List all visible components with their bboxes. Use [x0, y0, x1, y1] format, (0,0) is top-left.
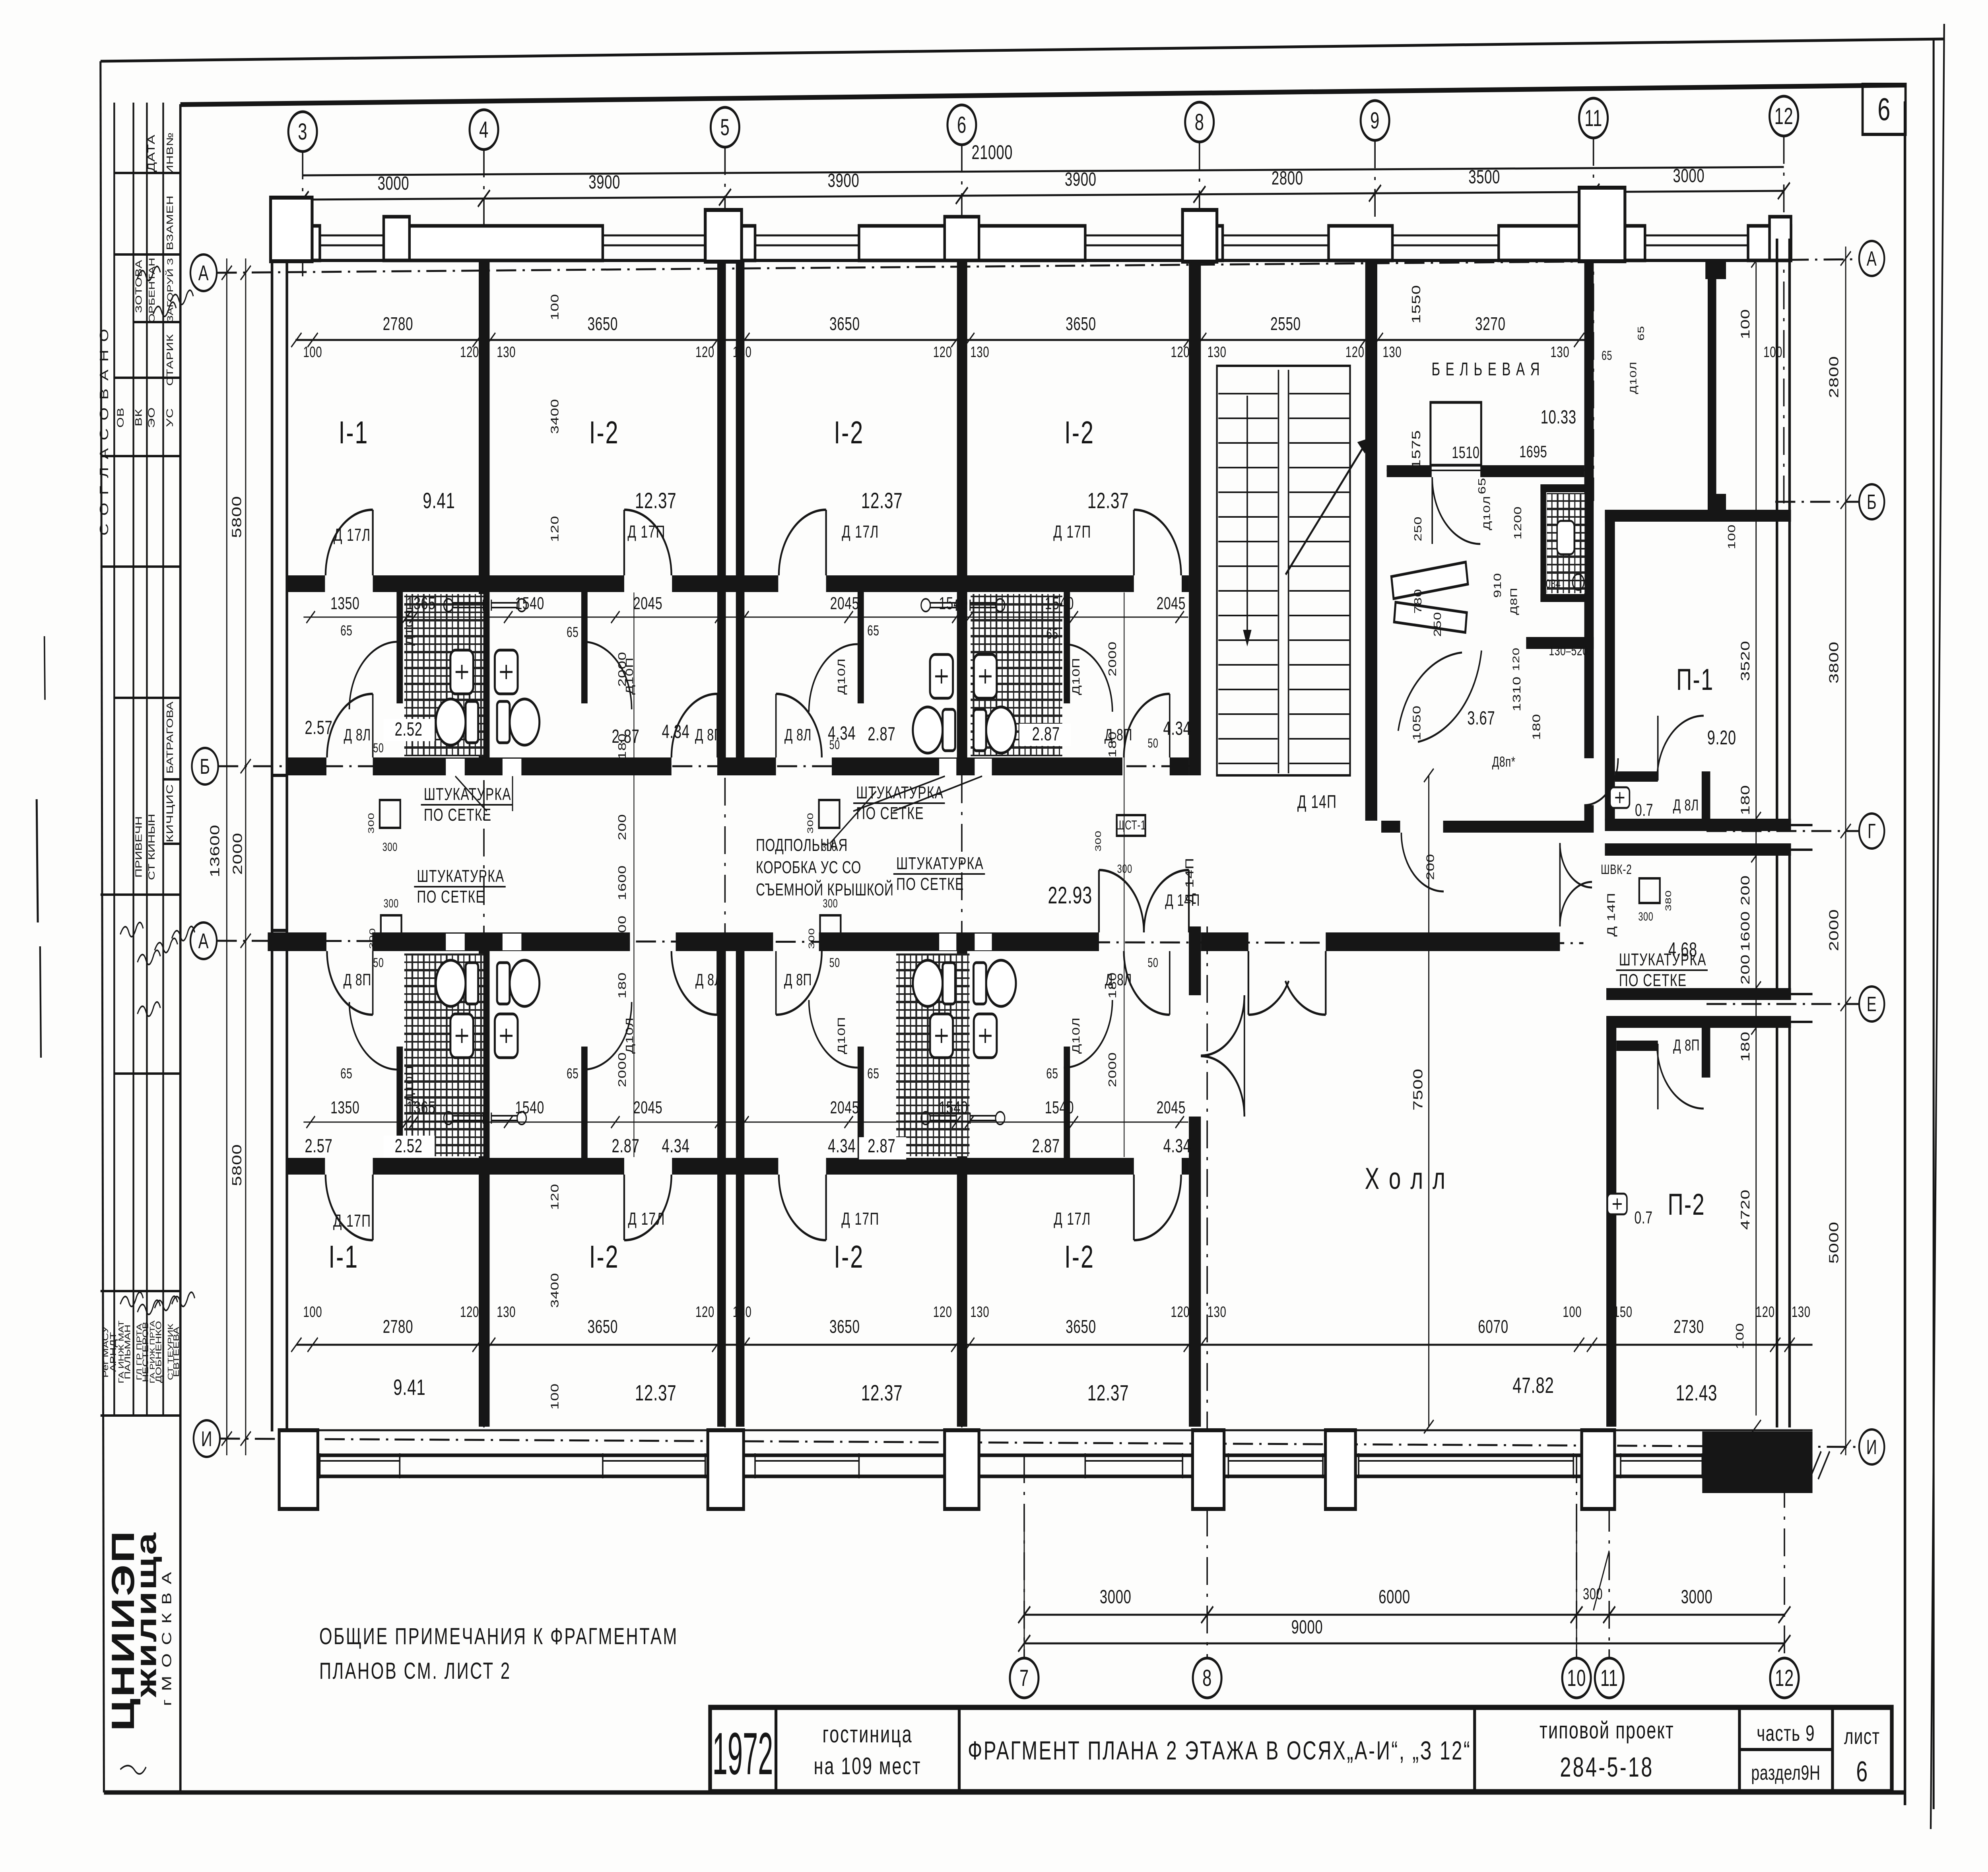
- svg-text:2045: 2045: [830, 1098, 859, 1117]
- svg-text:12.37: 12.37: [861, 489, 903, 513]
- svg-text:21000: 21000: [971, 142, 1013, 163]
- svg-text:100: 100: [303, 344, 322, 361]
- svg-text:100: 100: [303, 1304, 322, 1320]
- svg-text:1972: 1972: [712, 1721, 773, 1787]
- svg-text:Д10Л: Д10Л: [404, 609, 415, 646]
- svg-text:12.37: 12.37: [1087, 489, 1129, 513]
- svg-text:Д 17П: Д 17П: [627, 522, 665, 542]
- svg-text:3520: 3520: [1738, 641, 1753, 681]
- svg-text:2730: 2730: [1673, 1317, 1704, 1337]
- svg-text:Д10Л: Д10Л: [1628, 361, 1639, 394]
- svg-text:300: 300: [384, 896, 399, 910]
- svg-text:7: 7: [1019, 1665, 1029, 1691]
- svg-text:12.37: 12.37: [635, 489, 676, 513]
- svg-text:I-2: I-2: [834, 1239, 864, 1275]
- svg-text:ЕВТЕЕВА: ЕВТЕЕВА: [172, 1326, 181, 1377]
- svg-text:3000: 3000: [1100, 1586, 1132, 1607]
- svg-text:120: 120: [1511, 647, 1522, 671]
- svg-text:180: 180: [1531, 714, 1543, 740]
- svg-text:780: 780: [1412, 588, 1424, 614]
- svg-text:6: 6: [1877, 91, 1891, 127]
- svg-text:1695: 1695: [1519, 442, 1547, 461]
- svg-text:2.87: 2.87: [1032, 723, 1060, 744]
- svg-text:1575: 1575: [1409, 430, 1423, 468]
- svg-text:Д 17П: Д 17П: [841, 1209, 879, 1229]
- svg-text:П-1: П-1: [1676, 663, 1714, 697]
- svg-text:1540: 1540: [1045, 1098, 1074, 1117]
- svg-text:2.87: 2.87: [612, 725, 639, 747]
- svg-text:3650: 3650: [588, 314, 618, 334]
- svg-text:2.87: 2.87: [868, 1135, 895, 1156]
- svg-text:ВЗАМЕН: ВЗАМЕН: [165, 195, 175, 250]
- svg-text:на 109 мест: на 109 мест: [814, 1753, 922, 1780]
- svg-text:2045: 2045: [1157, 594, 1186, 613]
- svg-text:3900: 3900: [588, 171, 620, 192]
- svg-text:120: 120: [549, 1184, 561, 1210]
- svg-text:ПО СЕТКЕ: ПО СЕТКЕ: [896, 874, 964, 894]
- svg-text:Д8П: Д8П: [1508, 587, 1519, 615]
- svg-text:1540: 1540: [515, 594, 544, 613]
- svg-text:120: 120: [695, 1304, 714, 1320]
- svg-text:3270: 3270: [1475, 314, 1506, 334]
- svg-text:СТАРИК: СТАРИК: [165, 334, 175, 386]
- svg-text:ШТУКАТУРКА: ШТУКАТУРКА: [424, 785, 511, 804]
- svg-text:2.87: 2.87: [868, 723, 895, 744]
- svg-text:ПО СЕТКЕ: ПО СЕТКЕ: [417, 887, 485, 907]
- svg-text:А: А: [198, 929, 209, 953]
- svg-text:Д 17Л: Д 17Л: [1054, 1209, 1091, 1229]
- svg-text:Д 8Л: Д 8Л: [344, 725, 371, 744]
- svg-text:65: 65: [1602, 348, 1612, 363]
- svg-text:2.87: 2.87: [612, 1135, 639, 1156]
- svg-text:3.67: 3.67: [1467, 707, 1495, 728]
- svg-text:120: 120: [460, 1304, 479, 1320]
- svg-text:Д 17П: Д 17П: [333, 1211, 371, 1231]
- svg-text:Д10Л: Д10Л: [624, 1017, 635, 1054]
- svg-text:2550: 2550: [1270, 314, 1301, 334]
- svg-text:65: 65: [1476, 478, 1488, 494]
- svg-text:I-2: I-2: [834, 415, 864, 451]
- svg-text:Б: Б: [200, 754, 210, 779]
- svg-text:100: 100: [549, 1383, 561, 1410]
- svg-text:2.57: 2.57: [305, 1135, 332, 1156]
- svg-text:Д 8П: Д 8П: [695, 725, 723, 744]
- svg-text:БАТРАГОВА: БАТРАГОВА: [165, 701, 175, 774]
- svg-text:65: 65: [340, 1066, 352, 1082]
- svg-text:ПО СЕТКЕ: ПО СЕТКЕ: [1619, 971, 1687, 990]
- svg-text:I-2: I-2: [589, 1239, 619, 1275]
- svg-text:ПРИВЕЧН: ПРИВЕЧН: [134, 816, 144, 878]
- svg-text:300: 300: [366, 812, 376, 833]
- svg-text:Д 8Л: Д 8Л: [784, 725, 812, 744]
- svg-text:300: 300: [805, 812, 815, 833]
- svg-text:КОРОБКА УС СО: КОРОБКА УС СО: [756, 858, 861, 877]
- svg-text:И: И: [201, 1427, 213, 1451]
- svg-text:180: 180: [616, 972, 629, 998]
- svg-text:6: 6: [957, 112, 967, 138]
- svg-text:3650: 3650: [829, 314, 860, 334]
- svg-text:Б Е Л Ь Е В А Я: Б Е Л Ь Е В А Я: [1431, 359, 1540, 379]
- svg-text:Д 14П: Д 14П: [1183, 858, 1196, 904]
- svg-text:3400: 3400: [549, 1273, 561, 1308]
- svg-text:0.7: 0.7: [1635, 800, 1653, 820]
- svg-text:4.34: 4.34: [1163, 1135, 1191, 1156]
- svg-text:9: 9: [1370, 107, 1380, 133]
- svg-text:3500: 3500: [1468, 166, 1500, 187]
- svg-text:0.7: 0.7: [1635, 1208, 1653, 1227]
- svg-text:УС: УС: [164, 408, 175, 427]
- svg-text:Д8п*: Д8п*: [1492, 754, 1516, 770]
- svg-text:4.34: 4.34: [1163, 717, 1191, 739]
- svg-text:250: 250: [1412, 516, 1424, 541]
- svg-text:ВК: ВК: [133, 409, 144, 426]
- svg-text:1200: 1200: [1512, 506, 1524, 540]
- svg-text:ШТУКАТУРКА: ШТУКАТУРКА: [417, 866, 505, 886]
- svg-text:Д 14П: Д 14П: [1606, 893, 1618, 937]
- svg-text:50: 50: [1148, 736, 1159, 750]
- svg-text:ОБЩИЕ ПРИМЕЧАНИЯ К ФРАГМЕНТАМ: ОБЩИЕ ПРИМЕЧАНИЯ К ФРАГМЕНТАМ: [319, 1623, 678, 1649]
- svg-text:1540: 1540: [939, 594, 968, 613]
- svg-text:300: 300: [806, 928, 816, 949]
- svg-text:Д 14П: Д 14П: [1297, 792, 1337, 812]
- svg-text:50: 50: [1148, 955, 1159, 970]
- svg-text:130: 130: [1208, 1304, 1227, 1320]
- svg-text:65: 65: [567, 624, 579, 640]
- svg-text:65: 65: [567, 1066, 579, 1082]
- svg-text:120: 120: [549, 516, 561, 542]
- svg-text:6070: 6070: [1478, 1317, 1508, 1337]
- svg-text:3650: 3650: [588, 1317, 618, 1337]
- svg-text:часть 9: часть 9: [1757, 1721, 1815, 1746]
- svg-text:ПЛАНОВ СМ. ЛИСТ 2: ПЛАНОВ СМ. ЛИСТ 2: [319, 1658, 511, 1684]
- svg-text:Д 8П: Д 8П: [344, 970, 371, 989]
- svg-text:ПО СЕТКЕ: ПО СЕТКЕ: [424, 805, 492, 825]
- svg-text:1510: 1510: [1452, 443, 1479, 462]
- svg-text:300: 300: [1117, 862, 1132, 875]
- svg-text:12.43: 12.43: [1676, 1381, 1717, 1406]
- svg-text:084: 084: [1546, 577, 1561, 590]
- svg-text:ОВ: ОВ: [115, 407, 126, 427]
- svg-text:3: 3: [298, 118, 307, 144]
- svg-text:4720: 4720: [1738, 1189, 1753, 1230]
- svg-text:Д 8П: Д 8П: [784, 970, 812, 989]
- svg-text:4.34: 4.34: [662, 720, 689, 742]
- svg-text:3650: 3650: [1066, 1317, 1096, 1337]
- svg-text:120: 120: [460, 344, 479, 361]
- svg-text:100: 100: [1734, 1323, 1746, 1349]
- svg-text:3900: 3900: [1065, 168, 1097, 190]
- svg-text:ЩСТ-1: ЩСТ-1: [1116, 818, 1146, 832]
- svg-text:12.37: 12.37: [861, 1381, 903, 1406]
- svg-text:3400: 3400: [549, 399, 561, 434]
- svg-text:А: А: [198, 261, 209, 285]
- svg-text:ФРАГМЕНТ ПЛАНА 2 ЭТАЖА В ОСЯХ: ФРАГМЕНТ ПЛАНА 2 ЭТАЖА В ОСЯХ„А-И“, „З 1…: [968, 1736, 1471, 1765]
- svg-text:2.52: 2.52: [395, 1135, 423, 1156]
- svg-text:120: 120: [695, 344, 714, 361]
- svg-text:АРНДТ: АРНДТ: [108, 1332, 118, 1372]
- svg-text:65: 65: [1046, 626, 1058, 642]
- svg-text:Д 17Л: Д 17Л: [842, 522, 879, 542]
- svg-text:300: 300: [1638, 909, 1653, 923]
- svg-text:2.87: 2.87: [1032, 1135, 1060, 1156]
- svg-text:2.52: 2.52: [395, 718, 423, 740]
- svg-text:250: 250: [1432, 612, 1443, 637]
- svg-text:4.34: 4.34: [828, 1135, 856, 1156]
- svg-text:Б: Б: [1867, 490, 1877, 514]
- svg-text:130: 130: [1550, 344, 1569, 361]
- svg-text:65: 65: [1636, 326, 1646, 341]
- svg-text:180: 180: [1738, 785, 1753, 815]
- svg-text:А: А: [1867, 247, 1877, 270]
- svg-text:1540: 1540: [515, 1098, 544, 1117]
- svg-text:ПО СЕТКЕ: ПО СЕТКЕ: [856, 804, 924, 823]
- svg-text:9000: 9000: [1291, 1616, 1323, 1637]
- svg-text:3000: 3000: [1673, 165, 1705, 186]
- svg-text:100: 100: [1763, 344, 1782, 361]
- svg-text:300: 300: [367, 928, 377, 949]
- svg-text:Д10П: Д10П: [624, 657, 635, 695]
- svg-text:I-1: I-1: [338, 415, 369, 451]
- svg-text:лист: лист: [1844, 1724, 1880, 1749]
- svg-text:10.33: 10.33: [1541, 406, 1576, 427]
- svg-text:130⎯520: 130⎯520: [1549, 643, 1588, 658]
- svg-text:I-2: I-2: [589, 415, 619, 451]
- svg-text:2000: 2000: [1107, 1052, 1119, 1087]
- svg-text:50: 50: [829, 955, 840, 970]
- svg-text:300: 300: [823, 896, 838, 910]
- svg-text:5: 5: [720, 114, 730, 140]
- svg-text:300: 300: [821, 840, 837, 853]
- svg-text:200: 200: [1738, 954, 1753, 985]
- svg-text:2780: 2780: [383, 314, 414, 334]
- svg-text:2800: 2800: [1272, 167, 1303, 188]
- svg-text:2045: 2045: [830, 594, 859, 613]
- svg-text:I-1: I-1: [328, 1239, 359, 1275]
- svg-text:5000: 5000: [1827, 1221, 1841, 1264]
- svg-text:120: 120: [1756, 1304, 1775, 1320]
- svg-text:130: 130: [1208, 344, 1227, 361]
- svg-text:Д10П: Д10П: [1070, 658, 1082, 695]
- svg-text:120: 120: [933, 344, 952, 361]
- svg-text:130: 130: [1792, 1304, 1811, 1320]
- svg-text:11: 11: [1584, 105, 1602, 131]
- svg-text:6: 6: [1856, 1756, 1868, 1788]
- svg-text:Е: Е: [1867, 992, 1877, 1016]
- svg-text:12.37: 12.37: [635, 1381, 676, 1406]
- svg-text:50: 50: [373, 741, 384, 755]
- svg-text:Д10П: Д10П: [404, 1065, 415, 1103]
- svg-text:120: 120: [933, 1304, 952, 1320]
- svg-text:1365: 1365: [406, 594, 435, 613]
- svg-text:910: 910: [1492, 573, 1503, 598]
- svg-text:Д10Л: Д10Л: [1481, 495, 1492, 530]
- svg-text:ШВК-2: ШВК-2: [1601, 862, 1632, 877]
- svg-text:9.41: 9.41: [393, 1375, 425, 1400]
- svg-text:100: 100: [549, 294, 561, 320]
- svg-text:2045: 2045: [633, 594, 662, 613]
- svg-text:Д 8П: Д 8П: [1673, 1036, 1700, 1054]
- svg-text:1600: 1600: [1738, 911, 1753, 952]
- svg-text:65: 65: [1046, 1066, 1058, 1082]
- svg-text:7500: 7500: [1411, 1068, 1425, 1111]
- svg-text:ЗОТОВА: ЗОТОВА: [134, 260, 144, 313]
- svg-text:4: 4: [479, 117, 489, 142]
- svg-text:I-2: I-2: [1064, 1239, 1095, 1275]
- svg-text:22.93: 22.93: [1048, 882, 1092, 909]
- svg-text:2000: 2000: [231, 833, 245, 875]
- svg-text:180: 180: [1738, 1031, 1753, 1062]
- svg-text:ДОБНЕНКО: ДОБНЕНКО: [154, 1321, 163, 1383]
- svg-text:12.37: 12.37: [1087, 1381, 1129, 1406]
- svg-text:КИЧЦИС: КИЧЦИС: [164, 784, 175, 843]
- svg-text:200: 200: [616, 814, 629, 840]
- svg-text:200: 200: [1738, 875, 1753, 905]
- svg-text:Д 8Л: Д 8Л: [695, 970, 722, 989]
- svg-text:1540: 1540: [1045, 594, 1074, 613]
- svg-text:200: 200: [1425, 854, 1437, 880]
- svg-text:1350: 1350: [330, 1098, 359, 1117]
- svg-text:Д 8П: Д 8П: [1105, 725, 1132, 744]
- svg-text:ШТУКАТУРКА: ШТУКАТУРКА: [896, 854, 984, 873]
- svg-text:г М О С К В А: г М О С К В А: [160, 1571, 174, 1706]
- svg-text:1350: 1350: [330, 594, 359, 613]
- svg-text:5800: 5800: [229, 496, 244, 538]
- svg-text:Д 8Л: Д 8Л: [1673, 796, 1699, 814]
- svg-text:НЕСТЕРОВ: НЕСТЕРОВ: [141, 1322, 150, 1382]
- svg-text:ШТУКАТУРКА: ШТУКАТУРКА: [1619, 950, 1706, 969]
- svg-text:13600: 13600: [208, 825, 222, 878]
- svg-text:типовой проект: типовой проект: [1540, 1717, 1674, 1744]
- svg-text:С О Г Л А С О В А Н О: С О Г Л А С О В А Н О: [97, 327, 111, 536]
- svg-text:Д 8Л: Д 8Л: [1105, 970, 1132, 989]
- svg-text:ЭО: ЭО: [146, 407, 157, 428]
- svg-text:Д10Л: Д10Л: [836, 658, 847, 695]
- svg-text:Д10Л: Д10Л: [1070, 1017, 1082, 1054]
- svg-text:380: 380: [1663, 890, 1673, 911]
- svg-text:65: 65: [867, 1066, 879, 1082]
- svg-text:2.57: 2.57: [305, 717, 332, 738]
- svg-text:2045: 2045: [1157, 1098, 1186, 1117]
- svg-text:2000: 2000: [1827, 909, 1841, 951]
- svg-text:50: 50: [373, 955, 384, 970]
- svg-text:130: 130: [497, 1304, 516, 1320]
- svg-text:жилища: жилища: [130, 1532, 162, 1698]
- svg-text:3900: 3900: [828, 169, 860, 191]
- svg-text:6000: 6000: [1378, 1586, 1410, 1607]
- svg-text:ПАЛЬМАН: ПАЛЬМАН: [123, 1324, 132, 1379]
- svg-text:65: 65: [340, 623, 352, 639]
- svg-text:12: 12: [1775, 1665, 1794, 1691]
- svg-text:284-5-18: 284-5-18: [1560, 1752, 1654, 1783]
- svg-text:4.34: 4.34: [662, 1135, 689, 1156]
- svg-text:1050: 1050: [1411, 705, 1423, 741]
- svg-text:130: 130: [970, 344, 989, 361]
- svg-text:3650: 3650: [1066, 314, 1096, 334]
- svg-text:Д 17П: Д 17П: [1053, 522, 1091, 542]
- svg-text:120: 120: [1171, 344, 1190, 361]
- svg-text:1600: 1600: [616, 865, 629, 901]
- svg-text:ЗАГОРУЙ З: ЗАГОРУЙ З: [165, 258, 175, 322]
- svg-text:100: 100: [1738, 309, 1753, 339]
- svg-text:раздел9Н: раздел9Н: [1751, 1761, 1820, 1785]
- svg-text:10: 10: [1567, 1665, 1586, 1691]
- svg-text:1540: 1540: [939, 1098, 968, 1117]
- svg-text:5800: 5800: [230, 1144, 244, 1186]
- svg-text:I-2: I-2: [1064, 415, 1095, 451]
- svg-text:ДАТА: ДАТА: [146, 134, 157, 172]
- svg-text:2000: 2000: [616, 1052, 629, 1087]
- svg-text:120: 120: [1171, 1304, 1190, 1320]
- svg-text:2800: 2800: [1827, 356, 1841, 398]
- svg-text:100: 100: [1563, 1304, 1582, 1320]
- svg-text:3000: 3000: [1681, 1586, 1713, 1607]
- svg-text:И: И: [1866, 1435, 1877, 1459]
- svg-text:130: 130: [1382, 344, 1402, 361]
- svg-text:Д10П: Д10П: [836, 1017, 847, 1054]
- svg-text:100: 100: [1726, 524, 1738, 549]
- svg-text:ИНВ№: ИНВ№: [165, 132, 175, 174]
- svg-text:Д 17Л: Д 17Л: [334, 525, 371, 545]
- svg-text:1550: 1550: [1409, 285, 1423, 323]
- svg-text:9.41: 9.41: [423, 489, 455, 513]
- svg-text:120: 120: [1345, 344, 1365, 361]
- svg-text:1365: 1365: [406, 1098, 435, 1117]
- svg-text:130: 130: [970, 1304, 989, 1320]
- svg-text:8: 8: [1195, 109, 1204, 135]
- svg-text:12: 12: [1774, 103, 1794, 129]
- svg-text:Д 17Л: Д 17Л: [628, 1209, 665, 1229]
- svg-text:2780: 2780: [383, 1317, 414, 1337]
- svg-text:Г: Г: [1868, 819, 1876, 843]
- svg-text:9.20: 9.20: [1707, 727, 1736, 749]
- svg-text:8: 8: [1202, 1665, 1212, 1691]
- svg-text:65: 65: [867, 623, 879, 639]
- svg-text:2045: 2045: [633, 1098, 662, 1117]
- svg-text:3000: 3000: [378, 172, 410, 194]
- svg-text:П-2: П-2: [1668, 1188, 1705, 1221]
- svg-text:2000: 2000: [1107, 641, 1119, 677]
- svg-text:130: 130: [497, 344, 516, 361]
- svg-text:300: 300: [1093, 830, 1103, 851]
- svg-text:Х о л л: Х о л л: [1365, 1162, 1447, 1196]
- svg-text:1310: 1310: [1511, 676, 1523, 712]
- svg-text:47.82: 47.82: [1512, 1373, 1554, 1398]
- svg-text:3800: 3800: [1827, 641, 1841, 684]
- svg-text:СТ КИНЫН: СТ КИНЫН: [146, 814, 157, 880]
- svg-text:11: 11: [1600, 1665, 1618, 1691]
- svg-text:50: 50: [829, 738, 840, 752]
- svg-text:гостиница: гостиница: [823, 1721, 913, 1748]
- svg-text:3650: 3650: [829, 1317, 860, 1337]
- svg-text:300: 300: [382, 840, 398, 853]
